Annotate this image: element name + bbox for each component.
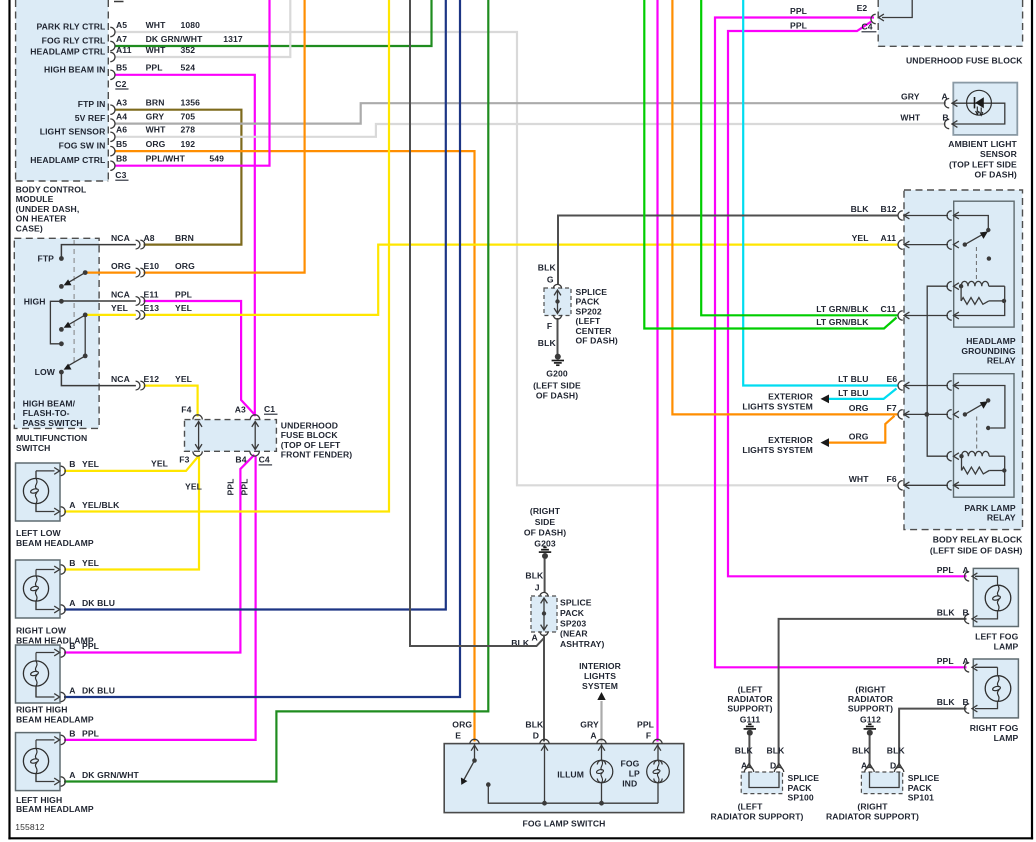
label splice pack SP203 pin A and BLK (511, 633, 538, 649)
svg-text:LEFT FOG: LEFT FOG (975, 632, 1019, 642)
pin E2/C4 of underhood fuse block (871, 14, 884, 24)
pin A3/C1 of underhood fuse block (250, 415, 259, 420)
svg-text:192: 192 (181, 139, 196, 149)
pin A of right low beam headlamp (36, 576, 65, 614)
arrow exterior lights system (ORG) (821, 438, 830, 447)
splice pack SP100 box (741, 772, 782, 794)
right low beam headlamp box (16, 560, 61, 618)
svg-text:A: A (942, 92, 948, 102)
svg-text:DK BLU: DK BLU (82, 686, 115, 696)
svg-text:SUPPORT): SUPPORT) (727, 704, 772, 714)
label PPL rotated (C4 wire) (240, 478, 250, 495)
wire LT BLU (to park lamp relay E6, exits top) (743, 0, 897, 386)
svg-text:LIGHTS SYSTEM: LIGHTS SYSTEM (742, 402, 813, 412)
svg-text:(NEAR: (NEAR (560, 629, 588, 639)
wire PPL (underhood fuse block E2 to right fog lamp A) (715, 18, 967, 668)
multifunction switch FTP arm (59, 270, 88, 289)
pin E11 of multifunction switch (PPL) (111, 289, 192, 305)
pin B4/C4 of underhood fuse block (250, 451, 259, 456)
label splice pack SP202 pin G and BLK (538, 263, 557, 285)
pin E13 of multifunction switch (YEL) (111, 303, 192, 319)
svg-text:YEL: YEL (185, 482, 202, 492)
label PPL rotated (B4 wire) (226, 478, 236, 495)
svg-text:A: A (532, 633, 538, 643)
svg-text:A: A (69, 500, 75, 510)
svg-text:352: 352 (181, 45, 196, 55)
svg-text:NCA: NCA (111, 289, 130, 299)
wire BLK (left fog lamp B to splice pack SP100 D) (779, 619, 967, 768)
wire PPL 524 (BCM B5 to underhood fuse block C1) (115, 75, 255, 417)
right high beam headlamp box (16, 645, 61, 703)
svg-text:ORG: ORG (452, 720, 472, 730)
arrow exterior lights system (LT BLU) (821, 395, 830, 404)
right low beam headlamp bulb (23, 576, 48, 601)
svg-text:SUPPORT): SUPPORT) (848, 704, 893, 714)
label WHT F6 (849, 474, 897, 484)
labels right low beam headlamp pins (69, 558, 115, 608)
wire BLK (branch to splice pack SP203, exits top) (410, 0, 544, 646)
svg-text:PPL: PPL (637, 720, 654, 730)
svg-text:HIGH BEAM/: HIGH BEAM/ (23, 399, 76, 409)
wire PPL (underhood fuse block C4 to left fog lamp A) (728, 21, 967, 576)
svg-text:EXTERIOR: EXTERIOR (768, 391, 813, 401)
label ground G203 (524, 506, 566, 549)
svg-text:A: A (963, 656, 969, 666)
pin C11 of body relay block (898, 311, 909, 320)
label ORG F7 (849, 403, 897, 413)
label ILLUM (557, 770, 584, 780)
svg-text:LP: LP (629, 769, 640, 779)
svg-text:PPL: PPL (937, 656, 954, 666)
svg-text:B12: B12 (881, 204, 897, 214)
svg-text:PPL: PPL (937, 565, 954, 575)
label ground G200 (533, 369, 581, 401)
svg-text:ORG: ORG (111, 261, 131, 271)
label FOG LP IND (621, 759, 641, 789)
svg-text:FOG: FOG (621, 759, 640, 769)
svg-text:GRY: GRY (901, 92, 920, 102)
splice pack SP100 location label (710, 802, 803, 822)
labels fog lamp switch pins (452, 720, 654, 741)
svg-text:A11: A11 (881, 233, 897, 243)
svg-text:GRY: GRY (580, 720, 599, 730)
svg-text:SPLICE: SPLICE (908, 773, 940, 783)
labels left fog lamp pins (937, 565, 969, 618)
left fog lamp box (973, 568, 1018, 626)
wire BLK (right fog lamp B to splice pack SP101 D) (899, 709, 966, 768)
svg-text:BLK: BLK (852, 745, 871, 755)
svg-text:IND: IND (622, 779, 637, 789)
pin A11 of body control module (WHT 352) (30, 45, 195, 62)
svg-text:PACK: PACK (788, 783, 813, 793)
wire PPL (underhood fuse block B4 to right high beam headlamp B) (64, 455, 254, 653)
pin A8 of multifunction switch (BRN) (111, 233, 194, 249)
wire BLK (ground G112 to splice pack SP101 A) (869, 735, 871, 768)
multifunction switch internal link (dashed) (73, 240, 75, 362)
svg-text:ILLUM: ILLUM (557, 770, 584, 780)
pin F7 of body relay block (898, 410, 909, 419)
svg-text:PACK: PACK (908, 783, 933, 793)
arrow interior lights system (597, 692, 605, 700)
svg-text:1356: 1356 (181, 98, 201, 108)
svg-text:PACK: PACK (560, 608, 585, 618)
labels right high beam headlamp pins (69, 641, 115, 696)
headlamp grounding relay switch (955, 216, 991, 247)
labels F4 A3 C1 (fuse block top) (181, 404, 277, 415)
pin F of splice pack SP202 (553, 315, 561, 319)
label FTP (37, 254, 54, 264)
svg-text:YEL: YEL (111, 303, 128, 313)
pin A of right high beam headlamp (36, 686, 65, 702)
svg-text:PPL: PPL (790, 21, 807, 31)
svg-text:PARK RLY CTRL: PARK RLY CTRL (36, 22, 105, 32)
svg-text:ORG: ORG (146, 139, 166, 149)
left low beam headlamp name (16, 528, 94, 548)
svg-text:C4: C4 (259, 455, 270, 465)
svg-text:155812: 155812 (15, 822, 44, 832)
pin A4 of body control module (GRY 705) (75, 111, 196, 128)
multifunction switch arm link wire (84, 315, 86, 356)
svg-text:LIGHTS: LIGHTS (584, 671, 616, 681)
labels splice pack SP101 pins A D BLK BLK (852, 745, 905, 770)
svg-text:SP202: SP202 (576, 306, 602, 316)
svg-text:RADIATOR SUPPORT): RADIATOR SUPPORT) (826, 811, 919, 821)
left fog lamp bulb (985, 585, 1011, 611)
svg-text:BLK: BLK (525, 720, 544, 730)
splice pack SP202 box (544, 288, 571, 316)
left low beam headlamp box (16, 463, 61, 521)
wire BLK (splice pack SP202 G to headlamp grounding relay B12) (558, 216, 898, 285)
labels F3 B4 C4 (fuse block bottom) (179, 455, 272, 465)
svg-text:WHT: WHT (146, 125, 167, 135)
pin E6 of body relay block (898, 381, 909, 390)
pin A7 of body control module (DK GRN/WHT 1317) (42, 34, 243, 51)
park lamp relay resistor (962, 467, 1007, 474)
splice pack SP203 label (560, 598, 604, 650)
svg-text:B: B (942, 113, 948, 123)
svg-text:ON HEATER: ON HEATER (16, 214, 68, 224)
svg-text:LAMP: LAMP (994, 641, 1019, 651)
svg-text:B5: B5 (116, 139, 127, 149)
left fog lamp name (975, 632, 1019, 652)
wire LT GRN/BLK (to headlamp grounding relay C11 lower, exits top) (644, 0, 896, 329)
svg-text:FLASH-TO-: FLASH-TO- (23, 408, 70, 418)
svg-text:BLK: BLK (735, 745, 754, 755)
label BLK B12 (851, 204, 897, 214)
svg-text:G112: G112 (860, 715, 881, 725)
svg-text:A: A (69, 598, 75, 608)
splice pack SP100 label (788, 773, 820, 803)
underhood fuse block (left) internal arrow 2 (252, 422, 259, 450)
pin A of right fog lamp (965, 663, 998, 676)
svg-text:MULTIFUNCTION: MULTIFUNCTION (16, 433, 87, 443)
pin B of left low beam headlamp (36, 466, 65, 475)
svg-text:BLK: BLK (525, 570, 544, 580)
fog lamp switch D branch wire (544, 744, 546, 804)
pin E of fog lamp switch (470, 739, 479, 750)
svg-text:SENSOR: SENSOR (980, 149, 1018, 159)
pin A6 of body control module (WHT 278) (40, 125, 196, 142)
wire WHT 352 (BCM A11, exits top) (115, 0, 290, 57)
ambient light sensor box (953, 83, 1017, 135)
svg-text:LIGHT SENSOR: LIGHT SENSOR (40, 126, 106, 136)
underhood fuse block (left) label (281, 421, 353, 460)
fog lamp switch FOG LP IND lamp (647, 744, 670, 804)
svg-text:LOW: LOW (35, 367, 56, 377)
labels GRY A WHT B (ambient light sensor) (900, 92, 948, 123)
pin B of left fog lamp (965, 611, 998, 624)
wire PPL (multifunction switch E11 to underhood fuse block A3) (144, 301, 255, 415)
wire GRY (fog lamp switch A to interior lights system) (600, 701, 602, 742)
park lamp relay coil (959, 451, 1004, 470)
svg-text:RIGHT HIGH: RIGHT HIGH (16, 705, 68, 715)
pin of headlamp grounding relay (A11 row) (947, 240, 959, 249)
label ground G111 (727, 684, 773, 724)
label LOW (35, 367, 56, 377)
svg-text:BLK: BLK (538, 263, 557, 273)
svg-text:FOG LAMP SWITCH: FOG LAMP SWITCH (523, 819, 606, 829)
svg-text:BEAM HEADLAMP: BEAM HEADLAMP (16, 538, 94, 548)
ambient light sensor name (948, 139, 1017, 180)
wire DK BLU (right high beam headlamp A, exits top) (64, 0, 460, 697)
svg-text:LIGHTS SYSTEM: LIGHTS SYSTEM (742, 445, 813, 455)
svg-text:HEADLAMP CTRL: HEADLAMP CTRL (30, 47, 105, 57)
headlamp grounding relay armature link (975, 247, 977, 282)
wire PPL (underhood fuse block C4 to left high beam headlamp B) (64, 456, 256, 740)
headlamp grounding relay name (961, 336, 1016, 366)
pin E10 of multifunction switch (ORG) (111, 261, 195, 277)
pin A of ambient light sensor (945, 99, 958, 108)
svg-text:B: B (69, 641, 75, 651)
svg-text:B5: B5 (116, 63, 127, 73)
label YEL A11 (852, 233, 897, 243)
svg-text:INTERIOR: INTERIOR (579, 661, 622, 671)
pin of headlamp grounding relay (C11 row) (947, 311, 959, 320)
svg-text:BEAM HEADLAMP: BEAM HEADLAMP (16, 715, 94, 725)
svg-text:278: 278 (181, 125, 196, 135)
svg-text:F: F (646, 731, 651, 741)
svg-text:GRY: GRY (146, 111, 165, 121)
svg-text:B8: B8 (116, 154, 127, 164)
svg-text:(LEFT SIDE OF DASH): (LEFT SIDE OF DASH) (930, 546, 1023, 556)
svg-text:BRN: BRN (175, 233, 194, 243)
label interior lights system (579, 661, 622, 691)
fog lamp switch box (444, 744, 684, 813)
park lamp relay switch (955, 386, 1005, 431)
pin F3 of underhood fuse block (193, 451, 202, 456)
pins splice pack SP101 (865, 764, 904, 773)
wire F6 to park lamp relay (906, 484, 949, 486)
underhood fuse block (top right) box (878, 0, 1022, 46)
pin A11 of body relay block (898, 240, 909, 249)
svg-text:F4: F4 (181, 405, 191, 415)
svg-text:HIGH: HIGH (24, 297, 46, 307)
multifunction switch HIGH contact (59, 299, 136, 304)
left high beam headlamp box (16, 733, 61, 791)
pin A of splice pack SP203 (540, 631, 548, 635)
svg-text:B: B (69, 728, 75, 738)
label 155812 (15, 822, 44, 832)
svg-text:FTP: FTP (37, 254, 54, 264)
right low beam headlamp internal wires (35, 570, 37, 610)
svg-text:A: A (590, 731, 596, 741)
svg-text:(TOP OF LEFT: (TOP OF LEFT (281, 440, 341, 450)
ambient light sensor internal wire (952, 103, 1005, 124)
svg-text:F7: F7 (887, 403, 897, 413)
cut-off wire stub at top of BCM (114, 1, 124, 3)
pin B of right low beam headlamp (36, 565, 65, 574)
wire BRN 1356 (BCM A3 to multifunction switch A8) (115, 110, 241, 245)
svg-text:549: 549 (209, 154, 224, 164)
left high beam headlamp bulb (23, 748, 48, 773)
svg-text:B: B (69, 459, 75, 469)
svg-text:PPL/WHT: PPL/WHT (146, 154, 186, 164)
svg-text:SIDE: SIDE (535, 517, 556, 527)
svg-text:PASS SWITCH: PASS SWITCH (23, 418, 83, 428)
svg-text:B4: B4 (235, 455, 246, 465)
svg-text:E: E (455, 731, 461, 741)
wire C11 to headlamp grounding relay (906, 315, 949, 317)
svg-text:1317: 1317 (223, 34, 243, 44)
svg-text:E2: E2 (857, 3, 868, 13)
svg-text:(LEFT: (LEFT (738, 684, 763, 694)
svg-text:CASE): CASE) (16, 223, 43, 233)
svg-text:705: 705 (181, 111, 196, 121)
svg-text:OF DASH): OF DASH) (524, 528, 566, 538)
svg-text:PPL: PPL (146, 63, 163, 73)
pin A of fog lamp switch (597, 739, 606, 750)
labels left high beam headlamp pins (69, 728, 139, 780)
svg-text:WHT: WHT (146, 45, 167, 55)
svg-text:B: B (963, 697, 969, 707)
multifunction switch FTP contact (59, 245, 136, 261)
svg-text:G200: G200 (546, 369, 568, 379)
wire F7 to park lamp relay (906, 413, 949, 415)
wire WHT A5 1080 (BCM A5 to park lamp relay F6) (115, 32, 898, 485)
ground G200 (552, 354, 564, 366)
right fog lamp box (973, 659, 1018, 718)
svg-text:E10: E10 (144, 261, 160, 271)
connector C3 label (115, 170, 128, 180)
headlamp grounding relay coil (959, 281, 1005, 301)
svg-text:HEADLAMP: HEADLAMP (966, 336, 1016, 346)
wire YEL/BLK (left low beam headlamp A, exits top) (64, 0, 389, 512)
labels right fog lamp pins (937, 656, 969, 707)
headlamp grounding relay coil return wire (955, 301, 1005, 316)
svg-text:(RIGHT: (RIGHT (530, 506, 561, 516)
pin A of left fog lamp (965, 572, 998, 586)
junction dot F7/interconnect (924, 412, 929, 417)
pin of headlamp grounding relay (coil+) (947, 282, 959, 291)
headlamp grounding relay fixed contact (987, 256, 991, 260)
svg-text:FOG RLY CTRL: FOG RLY CTRL (42, 36, 106, 46)
svg-text:C4: C4 (862, 22, 873, 32)
body relay block box (904, 190, 1023, 530)
svg-text:D: D (533, 731, 539, 741)
right low beam headlamp name (16, 626, 94, 646)
pin G of splice pack SP202 (553, 284, 561, 288)
wire interconnect (relay1 coil to F7 and relay2 coil) (927, 286, 948, 456)
svg-text:LEFT LOW: LEFT LOW (16, 528, 62, 538)
wire E6 to park lamp relay (906, 385, 949, 387)
wire GRY 705 (BCM A4 to ambient light sensor A) (115, 103, 946, 123)
svg-text:E11: E11 (144, 289, 159, 299)
svg-text:DK GRN/WHT: DK GRN/WHT (82, 770, 140, 780)
label HIGH (24, 297, 46, 307)
body control module box (16, 0, 109, 181)
svg-text:A: A (69, 686, 75, 696)
svg-text:BLK: BLK (887, 745, 906, 755)
pin A3 of body control module (BRN 1356) (78, 98, 200, 115)
wire BLK (ground G111 to splice pack SP100 A) (748, 735, 750, 768)
labels PPL E2 C4 (top right) (790, 3, 876, 32)
wire YEL (multifunction switch E13 to body relay block A11) (87, 245, 898, 315)
pin of headlamp grounding relay (B12 row) (947, 211, 959, 220)
label LT BLU (exterior branch) (838, 388, 869, 398)
svg-text:A3: A3 (235, 405, 246, 415)
svg-text:RELAY: RELAY (987, 513, 1016, 523)
svg-text:LAMP: LAMP (994, 733, 1019, 743)
right high beam headlamp internal wires (35, 653, 37, 698)
svg-text:LT GRN/BLK: LT GRN/BLK (816, 304, 869, 314)
left low beam headlamp internal wires (35, 471, 37, 512)
pin B of right high beam headlamp (36, 648, 65, 657)
underhood fuse block (left) box (185, 420, 277, 452)
svg-text:LT BLU: LT BLU (838, 374, 869, 384)
svg-text:FOG SW IN: FOG SW IN (59, 141, 106, 151)
underhood fuse block (left) internal arrow 1 (195, 422, 202, 450)
svg-text:A11: A11 (116, 45, 132, 55)
splice pack SP101 box (861, 772, 902, 794)
svg-text:A6: A6 (116, 125, 127, 135)
svg-text:OF DASH): OF DASH) (975, 170, 1017, 180)
wire BLK (ground G203 to splice pack SP203 J) (544, 559, 546, 593)
splice pack SP203 internal arrow (541, 598, 548, 630)
pin J of splice pack SP203 (540, 592, 548, 596)
label YEL below F3 (185, 482, 202, 492)
svg-text:FTP IN: FTP IN (78, 99, 106, 109)
svg-text:C11: C11 (881, 304, 897, 314)
svg-text:ORG: ORG (849, 432, 869, 442)
svg-text:BODY RELAY BLOCK: BODY RELAY BLOCK (933, 534, 1023, 544)
svg-text:WHT: WHT (146, 20, 167, 30)
fog lamp switch contact dot and bus (486, 782, 658, 805)
svg-text:UNDERHOOD FUSE BLOCK: UNDERHOOD FUSE BLOCK (906, 55, 1023, 65)
svg-text:PPL: PPL (82, 728, 99, 738)
svg-text:YEL: YEL (175, 374, 192, 384)
wire YEL (underhood fuse block F3 to left low beam headlamp B) (64, 456, 199, 471)
svg-text:A3: A3 (116, 98, 127, 108)
svg-text:BODY CONTROL: BODY CONTROL (16, 185, 87, 195)
svg-text:C1: C1 (264, 404, 275, 414)
splice pack SP101 label (908, 773, 940, 803)
svg-text:LT BLU: LT BLU (838, 388, 869, 398)
label exterior lights system (ORG) (742, 435, 813, 455)
svg-text:OF DASH): OF DASH) (576, 336, 618, 346)
svg-text:YEL: YEL (82, 459, 99, 469)
svg-text:YEL: YEL (175, 303, 192, 313)
splice pack SP203 box (531, 596, 557, 632)
svg-text:F6: F6 (887, 474, 897, 484)
svg-text:RADIATOR: RADIATOR (727, 694, 773, 704)
wire ORG 192 (BCM B5 to fog lamp switch E) (115, 151, 475, 741)
wire WHT 278 (BCM A6 to ambient light sensor B) (115, 124, 946, 137)
svg-text:A: A (963, 565, 969, 575)
svg-text:SPLICE: SPLICE (560, 598, 592, 608)
ambient light sensor photodiode (967, 90, 992, 115)
svg-text:SP203: SP203 (560, 618, 586, 628)
wire B12 to headlamp grounding relay (906, 215, 949, 217)
